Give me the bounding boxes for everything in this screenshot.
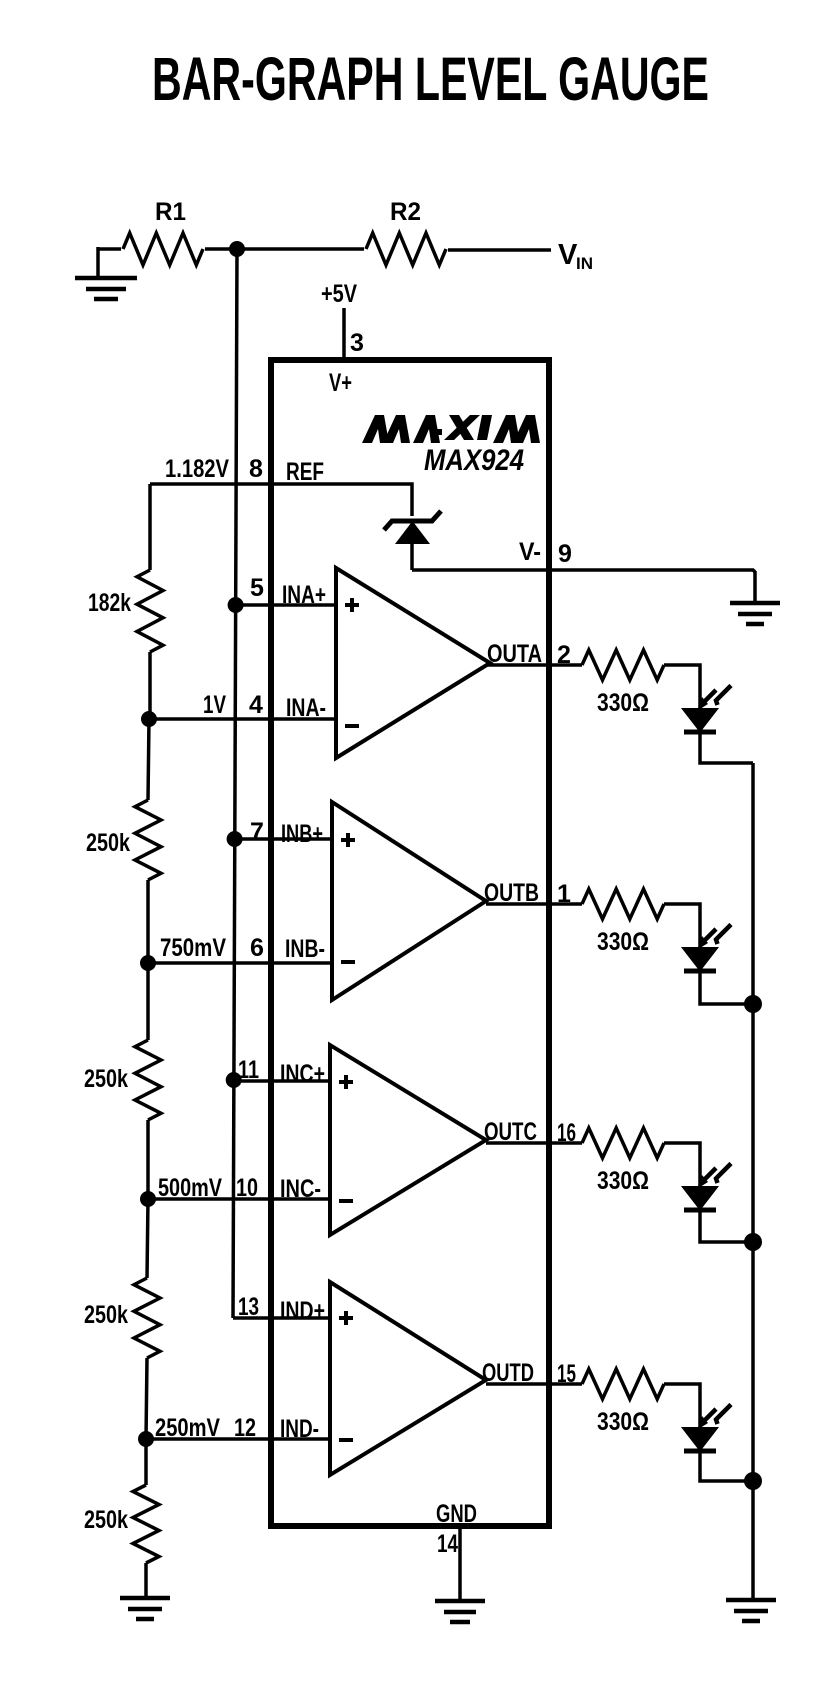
wire LED B to rail xyxy=(700,971,753,1004)
svg-text:4: 4 xyxy=(249,691,263,719)
pin 1 label xyxy=(557,880,571,908)
wire INA+ xyxy=(235,603,337,607)
resistor 330ohm (D) xyxy=(582,1369,664,1436)
wire 250k to ground xyxy=(144,1563,148,1598)
pin 14 label xyxy=(437,1530,458,1558)
pin 8 label xyxy=(249,455,263,483)
svg-text:13: 13 xyxy=(238,1293,259,1321)
resistor R2 xyxy=(366,198,446,265)
wire IND+ (corner from junction line) xyxy=(233,1316,331,1320)
pin INB- label xyxy=(285,935,325,963)
svg-text:INC-: INC- xyxy=(280,1175,321,1203)
svg-text:V+: V+ xyxy=(329,369,352,397)
wire 750mV to 250k xyxy=(146,963,150,1040)
LED D xyxy=(683,1405,731,1452)
wire REF line xyxy=(150,484,412,516)
zener diode D1 (1.182V ref) xyxy=(384,511,441,570)
pin 7 label xyxy=(250,818,264,846)
wire OUTC to resistor xyxy=(486,1141,582,1145)
wire 500mV to 250k xyxy=(147,1199,148,1278)
svg-text:MAX924: MAX924 xyxy=(424,444,524,477)
pin INC- label xyxy=(280,1175,321,1203)
svg-text:IND-: IND- xyxy=(280,1415,319,1443)
node LED B rail junction xyxy=(744,995,762,1013)
wire +5V to pin 3 xyxy=(342,308,346,360)
pin 2 label xyxy=(557,641,571,669)
wire node to R2 xyxy=(237,247,364,251)
op-amp comparator A xyxy=(336,568,490,758)
wire LED rail xyxy=(751,763,755,1599)
svg-text:250k: 250k xyxy=(84,1506,128,1534)
wire INB+ xyxy=(234,837,333,841)
wire resistor to LED B xyxy=(664,904,700,948)
svg-text:330Ω: 330Ω xyxy=(597,928,649,956)
node R1/R2 junction xyxy=(229,241,245,257)
svg-text:7: 7 xyxy=(250,818,264,846)
wire GND pin to ground xyxy=(458,1529,462,1600)
wire 250k to 750mV node xyxy=(146,880,150,963)
pin IND- label xyxy=(280,1415,319,1443)
MAX924 part label xyxy=(424,444,524,477)
power +5V label xyxy=(321,280,357,308)
svg-text:INA-: INA- xyxy=(286,694,326,722)
svg-text:330Ω: 330Ω xyxy=(597,1408,649,1436)
resistor 330ohm (A) xyxy=(582,650,664,717)
wire IND- xyxy=(146,1437,331,1441)
pin 11 label xyxy=(238,1056,259,1084)
wire 250k to 500mV node xyxy=(146,1120,150,1199)
svg-text:250k: 250k xyxy=(84,1301,128,1329)
node LED C rail junction xyxy=(744,1233,762,1251)
svg-text:IN: IN xyxy=(576,254,593,273)
ground (V- pin) xyxy=(730,603,780,624)
op-amp comparator B xyxy=(332,802,486,1000)
svg-text:INA+: INA+ xyxy=(282,581,326,609)
wire OUTB to resistor xyxy=(486,902,582,906)
svg-text:GND: GND xyxy=(436,1500,477,1528)
svg-text:12: 12 xyxy=(234,1414,256,1442)
node INB+ tap on junction line xyxy=(227,831,243,847)
svg-text:330Ω: 330Ω xyxy=(597,689,649,717)
ground (LED rail bottom) xyxy=(726,1600,776,1621)
pin 13 label xyxy=(238,1293,259,1321)
pin 5 label xyxy=(250,574,264,602)
pin INA- label xyxy=(286,694,326,722)
pin V+ label xyxy=(329,369,352,397)
ground (left of R1) xyxy=(75,247,137,299)
node 750mV tap xyxy=(140,934,226,971)
pin INC+ label xyxy=(280,1060,325,1088)
LED C xyxy=(683,1164,731,1211)
wire REF corner to 182k xyxy=(148,484,152,570)
svg-text:5: 5 xyxy=(250,574,264,602)
svg-text:BAR-GRAPH LEVEL GAUGE: BAR-GRAPH LEVEL GAUGE xyxy=(152,45,709,113)
wire LED D to rail xyxy=(700,1451,753,1481)
pin OUTC label xyxy=(484,1118,537,1146)
net label VIN xyxy=(558,239,593,273)
pin 12 label xyxy=(234,1414,256,1442)
pin 6 label xyxy=(250,934,264,962)
node INA+ tap on junction line xyxy=(228,597,244,613)
resistor 182k xyxy=(88,570,163,652)
wire ground to R1 xyxy=(97,247,121,251)
resistor 330ohm (B) xyxy=(582,889,664,956)
svg-text:INB+: INB+ xyxy=(281,820,323,848)
svg-text:INC+: INC+ xyxy=(280,1060,325,1088)
node INC+ tap on junction line xyxy=(226,1072,242,1088)
svg-text:3: 3 xyxy=(350,329,364,357)
pin GND label xyxy=(436,1500,477,1528)
wire OUTD to resistor xyxy=(486,1382,582,1386)
pin 9 label xyxy=(558,540,572,568)
resistor 330ohm (C) xyxy=(582,1128,664,1195)
wire resistor to LED D xyxy=(664,1384,700,1428)
pin OUTB label xyxy=(484,879,539,907)
svg-text:8: 8 xyxy=(249,455,263,483)
svg-text:R2: R2 xyxy=(390,198,421,226)
pin 16 label xyxy=(557,1119,576,1147)
svg-text:9: 9 xyxy=(558,540,572,568)
LED A xyxy=(683,686,731,733)
net label 1.182V xyxy=(165,455,229,483)
svg-text:1V: 1V xyxy=(203,691,226,719)
svg-text:750mV: 750mV xyxy=(160,934,226,962)
wire 250mV to 250k xyxy=(144,1439,148,1485)
title text BAR-GRAPH LEVEL GAUGE xyxy=(152,45,709,113)
LED B xyxy=(683,925,731,972)
wire INC- xyxy=(148,1197,331,1201)
svg-text:11: 11 xyxy=(238,1056,259,1084)
pin 3 label xyxy=(350,329,364,357)
node 1V tap xyxy=(141,691,226,727)
wire LED C to rail xyxy=(700,1210,753,1242)
svg-text:182k: 182k xyxy=(88,589,131,617)
op-amp comparator D xyxy=(330,1282,486,1475)
svg-text:330Ω: 330Ω xyxy=(597,1167,649,1195)
wire 182k to 1V node xyxy=(148,652,152,719)
resistor 250k (bottom) xyxy=(84,1485,159,1563)
wire resistor to LED A xyxy=(664,665,700,709)
wire 250k to 250mV node xyxy=(146,1358,147,1439)
wire V- to ground xyxy=(412,570,755,602)
wire R1 to node xyxy=(205,247,237,251)
pin IND+ label xyxy=(280,1297,325,1325)
svg-text:V-: V- xyxy=(519,538,541,566)
wire resistor to LED C xyxy=(664,1143,700,1187)
resistor 250k (1V-750mV) xyxy=(86,800,161,880)
resistor 250k (500mV-250mV) xyxy=(84,1278,160,1358)
wire R2 to VIN xyxy=(448,248,551,252)
node 500mV tap xyxy=(140,1174,222,1207)
pin OUTD label xyxy=(482,1359,534,1387)
ground (divider bottom) xyxy=(120,1598,170,1619)
node 250mV tap xyxy=(138,1414,220,1447)
op-amp comparator C xyxy=(330,1045,486,1235)
svg-text:250k: 250k xyxy=(84,1065,128,1093)
svg-text:1.182V: 1.182V xyxy=(165,455,229,483)
wire LED A to rail xyxy=(700,732,753,763)
pin 4 label xyxy=(249,691,263,719)
MAXIM logo xyxy=(362,415,540,443)
wire 1V to 250k xyxy=(148,719,149,800)
pin REF label xyxy=(286,458,324,486)
resistor 250k (750mV-500mV) xyxy=(84,1040,161,1120)
svg-text:10: 10 xyxy=(236,1174,258,1202)
wire node down left of IC xyxy=(233,249,237,1318)
pin 15 label xyxy=(557,1360,576,1388)
svg-text:R1: R1 xyxy=(155,198,186,226)
pin INA+ label xyxy=(282,581,326,609)
svg-text:REF: REF xyxy=(286,458,324,486)
svg-text:+5V: +5V xyxy=(321,280,357,308)
wire INA- xyxy=(149,717,337,721)
svg-text:IND+: IND+ xyxy=(280,1297,325,1325)
wire INC+ xyxy=(233,1079,331,1083)
resistor R1 xyxy=(123,198,203,265)
svg-text:INB-: INB- xyxy=(285,935,325,963)
op-amp IC U1 MAX924 box outline xyxy=(271,360,549,1526)
pin OUTA label xyxy=(487,640,542,668)
ground (GND pin) xyxy=(435,1601,485,1622)
svg-text:6: 6 xyxy=(250,934,264,962)
svg-text:V: V xyxy=(558,239,578,271)
pin INB+ label xyxy=(281,820,323,848)
pin 10 label xyxy=(236,1174,258,1202)
svg-text:14: 14 xyxy=(437,1530,458,1558)
wire OUTA to resistor xyxy=(486,663,582,667)
node LED D rail junction xyxy=(744,1472,762,1490)
pin V- label xyxy=(519,538,541,566)
svg-text:250k: 250k xyxy=(86,829,130,857)
wire INB- xyxy=(148,961,333,965)
